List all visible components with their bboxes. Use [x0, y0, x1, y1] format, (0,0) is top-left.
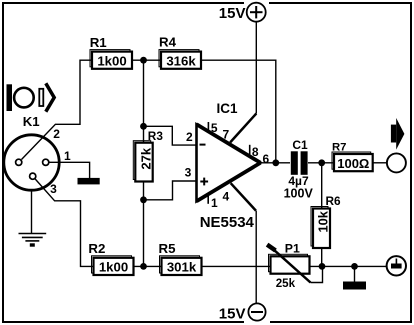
junction node pin2 tap [140, 123, 147, 130]
junction node ground tap [351, 263, 358, 270]
wire middle column upper [143, 60, 145, 143]
svg-text:15V: 15V [219, 5, 246, 22]
wire pin3 down to R2 [35, 179, 93, 266]
wire R2 to R5 [132, 265, 162, 267]
resistor R5 [160, 256, 202, 275]
svg-text:25k: 25k [276, 277, 296, 290]
svg-text:1k00: 1k00 [97, 53, 126, 68]
supply -15V terminal [248, 303, 265, 320]
op-amp pin 7 supply diagonal [230, 114, 256, 143]
svg-text:301k: 301k [167, 260, 197, 275]
ground terminal circle [387, 256, 406, 275]
wire op-amp output to C1 [261, 162, 291, 164]
svg-text:C1: C1 [292, 138, 308, 152]
wire to op-amp pin 2 [144, 126, 197, 145]
wire R5 to P1 [201, 265, 271, 267]
svg-text:P1: P1 [285, 241, 300, 255]
op-amp minus input mark [200, 144, 206, 146]
svg-text:4: 4 [222, 190, 229, 204]
svg-text:15V: 15V [219, 305, 246, 322]
svg-text:R1: R1 [90, 35, 108, 50]
capacitor C1 [291, 151, 308, 175]
svg-text:1k00: 1k00 [99, 260, 128, 275]
op-amp pin 8 tick [249, 145, 251, 156]
wire R6 bottom to rail [321, 248, 323, 266]
XLR pin 3 [30, 173, 36, 179]
svg-text:NE5534: NE5534 [200, 214, 255, 231]
wire P1 to ground terminal [310, 265, 387, 267]
svg-text:6: 6 [263, 152, 270, 166]
wire C1 to R7 [308, 162, 334, 164]
earth ground [19, 234, 47, 246]
svg-text:100Ω: 100Ω [337, 156, 369, 171]
wire to op-amp pin 3 [144, 181, 197, 200]
junction node R2-R5 [140, 263, 147, 270]
junction node output [272, 159, 279, 166]
resistor R6 [311, 207, 331, 249]
svg-text:IC1: IC1 [217, 101, 239, 116]
wire ground tap [354, 266, 356, 281]
svg-text:2: 2 [186, 130, 193, 144]
resistor R2 [92, 256, 134, 275]
wire middle column lower [143, 182, 145, 267]
svg-text:R6: R6 [326, 194, 342, 208]
output arrow symbol [391, 118, 405, 150]
svg-text:1: 1 [211, 196, 218, 210]
junction node R1-R4 [140, 57, 147, 64]
op-amp pin 5 tick [207, 122, 209, 132]
resistor R3 [133, 141, 153, 182]
wire XLR shell to earth ground [31, 190, 33, 233]
wire R7 to output [373, 162, 387, 164]
microphone symbol [7, 83, 55, 111]
wire R4 right to feedback corner [201, 60, 276, 163]
svg-text:100V: 100V [284, 187, 314, 201]
svg-text:R4: R4 [159, 35, 177, 50]
op-amp pin 1 tick [207, 195, 209, 204]
signal ground bar at pin 1 [78, 178, 100, 185]
junction node R6-P1 [319, 263, 326, 270]
wire node to R6 top [321, 163, 323, 209]
wire pin2 diagonal up to R1 [22, 60, 93, 159]
supply wire +15V [255, 22, 257, 114]
XLR pin 2 [16, 159, 22, 165]
resistor R4 [159, 50, 201, 69]
svg-text:2: 2 [53, 127, 60, 141]
svg-text:8: 8 [252, 145, 259, 159]
XLR pin 1 [43, 159, 49, 165]
svg-text:316k: 316k [166, 53, 196, 68]
svg-text:1: 1 [64, 149, 71, 163]
svg-text:3: 3 [185, 165, 192, 179]
svg-text:27k: 27k [139, 147, 154, 169]
junction node pin3 tap [140, 196, 147, 203]
junction node C1-R7 [318, 159, 325, 166]
op-amp plus input mark [200, 178, 208, 186]
wire pin1 to ground bar [49, 162, 90, 178]
svg-text:10k: 10k [316, 210, 331, 232]
svg-text:5: 5 [211, 121, 218, 135]
svg-text:7: 7 [222, 127, 229, 141]
supply wire -15V [255, 211, 257, 304]
potentiometer P1 [267, 245, 322, 283]
supply +15V terminal [247, 3, 266, 22]
op-amp U1 triangle [197, 124, 261, 201]
svg-text:3: 3 [50, 182, 57, 196]
ground bar bottom right [343, 282, 366, 290]
svg-text:K1: K1 [23, 114, 40, 129]
XLR connector K1 [4, 135, 59, 190]
wire R1 right to R4 [132, 59, 161, 61]
op-amp pin 4 supply diagonal [231, 183, 256, 210]
output terminal circle [387, 153, 406, 172]
svg-text:R2: R2 [88, 241, 105, 256]
svg-text:R5: R5 [159, 241, 177, 256]
resistor R1 [90, 50, 132, 69]
resistor R7 [332, 152, 373, 171]
